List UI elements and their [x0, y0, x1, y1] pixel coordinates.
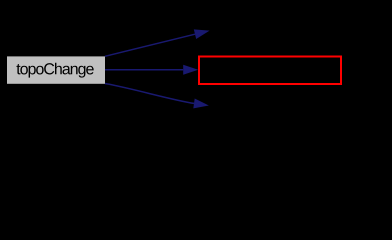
- node topoChange (current node, grey): [7, 56, 105, 83]
- grey node box: [7, 56, 105, 83]
- label text "topoChange" (as outlines): [16, 63, 93, 78]
- node (red border, truncated): [199, 57, 341, 85]
- edge: topoChange -> top node: [105, 34, 195, 56]
- edge: topoChange -> bottom node: [105, 84, 194, 104]
- edge: topoChange -> red node: [105, 69, 183, 71]
